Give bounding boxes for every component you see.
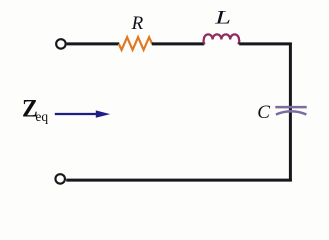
terminal top-left xyxy=(56,39,66,49)
arrow impedance direction xyxy=(55,113,98,115)
terminal bottom-left xyxy=(55,174,64,184)
capacitor C top plate xyxy=(275,106,306,109)
wire right vertical xyxy=(289,43,292,182)
inductor L xyxy=(204,34,240,44)
wire top segment 1 xyxy=(67,42,120,45)
svg-text:eq: eq xyxy=(35,109,48,124)
wire bottom segment xyxy=(66,179,292,182)
svg-text:C: C xyxy=(257,102,270,123)
capacitor C curved plate xyxy=(276,111,307,114)
resistor R xyxy=(119,37,152,50)
svg-text:L: L xyxy=(214,7,231,29)
svg-text:R: R xyxy=(131,13,144,34)
wire top segment 3 xyxy=(239,42,292,45)
wire top segment 2 xyxy=(152,42,204,45)
